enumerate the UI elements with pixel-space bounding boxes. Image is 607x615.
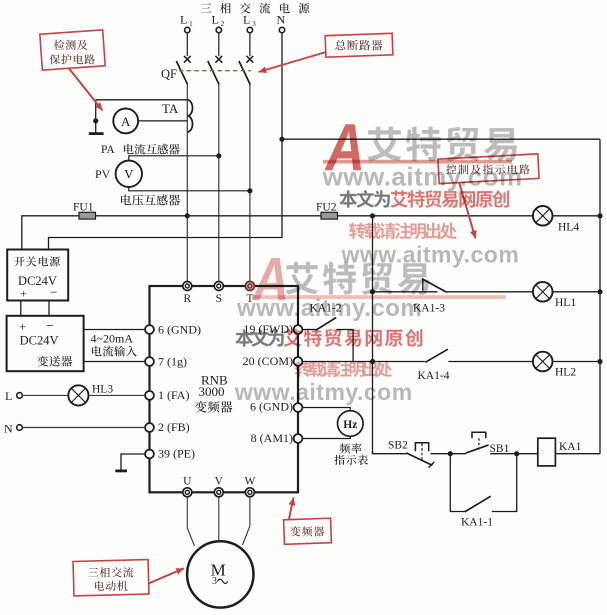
fuse FU1: [79, 212, 96, 219]
svg-text:KA1-4: KA1-4: [418, 370, 450, 382]
pin 7 1g: [145, 355, 187, 369]
breaker QF linkage (dashed): [179, 70, 251, 72]
breaker QF blade L1: [176, 61, 187, 85]
wire FU1 to FU2: [96, 215, 322, 217]
callout box 总断路器: [325, 33, 393, 57]
wire PA loop vertical: [95, 100, 97, 133]
junction dot PV-L2: [216, 153, 221, 158]
callout arrow to PA: [69, 69, 103, 111]
callout box 控制及指示电路: [438, 154, 539, 184]
label QF: [161, 67, 177, 81]
svg-text:2 (FB): 2 (FB): [158, 420, 190, 434]
terminal T: [245, 282, 254, 291]
watermark www lower: [236, 295, 422, 322]
junction dot HL1 rail: [597, 289, 602, 294]
label SB1: [490, 443, 510, 455]
svg-text:HL1: HL1: [555, 297, 576, 309]
voltmeter PV: [116, 161, 142, 187]
callout arrow to inverter: [289, 498, 296, 520]
svg-text:L: L: [5, 389, 12, 403]
breaker QF blade L3: [239, 61, 250, 85]
wire GND to Hz meter: [302, 408, 350, 412]
wire L3 to T terminal: [249, 84, 251, 282]
label KA1-4: [418, 370, 450, 382]
watermark www2 upper: [341, 242, 520, 268]
terminal W: [245, 488, 254, 497]
svg-text:V: V: [215, 476, 224, 488]
svg-text:3: 3: [252, 19, 256, 28]
svg-text:3: 3: [212, 576, 217, 587]
pin 6 GND left: [145, 323, 201, 337]
label PV: [95, 167, 111, 181]
label FU2: [316, 202, 337, 214]
wire PV to L2: [129, 156, 219, 161]
wire W to motor: [243, 497, 250, 545]
relay coil KA1: [538, 438, 556, 466]
wire HL4 to right rail: [553, 215, 601, 217]
svg-text:+: +: [19, 319, 26, 334]
junction dot PV-L3: [247, 188, 252, 193]
wire transmitter to pin7: [84, 361, 146, 363]
wire transmitter to pin6: [84, 329, 146, 331]
junction dot COM row at dropper: [370, 359, 375, 364]
svg-text:N: N: [4, 422, 13, 436]
pin 1 FA: [145, 388, 189, 402]
breaker QF contact cross L3: [247, 56, 254, 63]
svg-text:www.aitmy.com: www.aitmy.com: [322, 162, 523, 192]
wire HL1 row left: [373, 291, 438, 293]
svg-text:www.aitmy.com: www.aitmy.com: [234, 379, 413, 405]
svg-text:PV: PV: [95, 167, 111, 181]
ammeter PA: [113, 109, 138, 134]
motor M 3~: [187, 541, 253, 607]
terminal R: [183, 282, 192, 291]
svg-text:V: V: [124, 167, 134, 182]
wire dropper from FU line: [372, 216, 374, 454]
wire V to motor: [218, 497, 220, 541]
wire L2 drop to breaker: [218, 33, 220, 57]
breaker QF contact cross L2: [215, 56, 222, 63]
label HL3: [92, 384, 113, 396]
wire supply to transmitter +: [20, 301, 22, 316]
wire AM1 to Hz meter: [302, 436, 350, 439]
svg-text:39 (PE): 39 (PE): [158, 447, 195, 461]
wire top rail from N: [282, 138, 600, 140]
wire SB2 to SB1: [431, 453, 467, 455]
svg-text:PA: PA: [101, 144, 115, 156]
wire KA1-2 to corner: [336, 330, 353, 362]
watermark 转载请注明出处 lower: [295, 361, 392, 377]
wire FWD to contact: [302, 329, 315, 331]
label three-phase AC source 三相交流电源: [201, 3, 310, 14]
svg-text:L: L: [212, 13, 219, 27]
svg-text:7 (1g): 7 (1g): [158, 355, 187, 369]
svg-text:HL2: HL2: [555, 367, 576, 379]
terminal V: [214, 488, 223, 497]
label HL4: [558, 222, 579, 234]
junction dot HL2 rail: [597, 359, 602, 364]
watermark red underline upper: [323, 160, 512, 164]
watermark red underline lower: [252, 295, 506, 299]
svg-text:KA1: KA1: [559, 441, 582, 453]
lamp HL2: [533, 352, 553, 372]
wire PA to TA bottom: [113, 120, 187, 122]
svg-text:3000: 3000: [199, 384, 225, 399]
watermark www upper: [322, 162, 523, 192]
node N lower: [4, 422, 22, 436]
label SB2: [388, 440, 408, 452]
pin 39 PE: [145, 447, 195, 461]
svg-text:W: W: [244, 476, 255, 488]
watermark 艾特贸易 lower: [286, 262, 430, 295]
wire coil to rail: [555, 453, 600, 455]
junction dot KA1-1 branch right: [514, 451, 519, 456]
wire HL3 to pin1: [89, 394, 146, 396]
inverter RNB3000 box: [150, 286, 299, 492]
svg-text:TA: TA: [162, 101, 179, 116]
wire PV to L3: [129, 187, 250, 191]
svg-text:HL3: HL3: [92, 384, 113, 396]
current transformer TA coil: [187, 100, 192, 132]
watermark www2 lower: [234, 379, 413, 405]
watermark A logo upper: [324, 111, 365, 185]
watermark 转载请注明出处 upper: [349, 223, 457, 240]
label 4~20mA 电流输入: [91, 332, 137, 357]
svg-text:DC24V: DC24V: [20, 334, 59, 348]
label KA1-2: [310, 302, 342, 314]
label KA1-1: [461, 517, 493, 529]
label KA1: [559, 441, 582, 453]
svg-text:R: R: [183, 293, 191, 305]
callout box 检测及保护电路: [40, 30, 105, 70]
svg-text:−: −: [50, 285, 57, 300]
watermark 艾特贸易 upper: [367, 127, 517, 162]
svg-text:A: A: [121, 114, 131, 129]
wire N down and left to switching supply: [49, 33, 283, 250]
svg-text:N: N: [277, 13, 286, 27]
svg-text:4~20mA: 4~20mA: [91, 332, 134, 346]
junction dot HL4 rail: [597, 213, 602, 218]
lamp HL3: [68, 385, 88, 405]
node N (neutral input terminal): [277, 13, 286, 33]
lamp HL1: [533, 282, 553, 302]
wire right rail: [599, 139, 601, 454]
wire pin39 to ground: [121, 454, 145, 471]
fuse FU2: [321, 212, 338, 219]
contact KA1-2 (NO): [316, 318, 337, 331]
junction dot dropper HL1 row: [370, 289, 375, 294]
junction dot FU line at dropper: [370, 213, 375, 218]
label 电压互感器: [121, 194, 180, 205]
callout arrow control: [459, 182, 477, 239]
svg-text:S: S: [216, 293, 222, 305]
svg-text:20 (COM): 20 (COM): [243, 354, 293, 368]
pushbutton SB2 (NC): [406, 443, 434, 468]
label HL1: [555, 297, 576, 309]
node L: [5, 389, 22, 403]
svg-text:FU2: FU2: [316, 202, 337, 214]
wire TA top to PA branch: [96, 99, 188, 101]
terminal S: [214, 282, 223, 291]
pushbutton SB1 (NO): [466, 432, 489, 453]
node L2 (phase input terminal): [212, 13, 225, 33]
svg-text:Hz: Hz: [343, 419, 357, 431]
wire L2 to S terminal: [218, 84, 220, 282]
svg-text:L: L: [180, 13, 187, 27]
svg-text:QF: QF: [161, 67, 177, 81]
terminal U: [183, 488, 192, 497]
wire KA1-1 bypass loop: [450, 454, 516, 512]
svg-text:2: 2: [221, 19, 225, 28]
svg-text:SB2: SB2: [388, 440, 408, 452]
label HL2: [555, 367, 576, 379]
wire FU2 to HL4: [338, 215, 534, 217]
pin 2 FB: [145, 420, 190, 434]
svg-text:www.aitmy.com: www.aitmy.com: [236, 295, 422, 322]
svg-text:8 (AM1): 8 (AM1): [251, 431, 293, 445]
frequency meter Hz: [338, 411, 364, 437]
pin 6 GND right: [250, 400, 302, 414]
label FU1: [73, 202, 94, 214]
wire KA1-3 to HL1: [447, 291, 533, 293]
pin 8 AM1: [251, 431, 303, 445]
svg-text:1 (FA): 1 (FA): [158, 388, 189, 402]
label TA: [162, 101, 179, 116]
svg-text:−: −: [46, 319, 54, 334]
wire U to motor: [187, 497, 194, 546]
breaker QF contact cross L1: [184, 56, 191, 63]
svg-text:L: L: [243, 13, 250, 27]
svg-text:6 (GND): 6 (GND): [158, 323, 201, 337]
watermark 本文为艾特贸易网原创 lower: [235, 329, 422, 347]
transmitter box DC24V 变送器: [7, 316, 84, 371]
contact KA1-4 (NO): [425, 349, 448, 362]
svg-text:+: +: [20, 287, 27, 301]
callout box 三相交流电动机: [73, 560, 149, 596]
svg-text:HL4: HL4: [558, 222, 579, 234]
svg-text:1: 1: [189, 19, 193, 28]
wire HL2 to rail: [553, 361, 601, 363]
contact KA1-1 (NO): [465, 496, 491, 512]
junction dot top rail at N: [279, 137, 284, 142]
svg-text:SB1: SB1: [490, 443, 510, 455]
wire N to pin2: [22, 427, 145, 429]
watermark 本文为艾特贸易网原创 upper: [339, 190, 509, 208]
ground stub at PA: [89, 132, 104, 135]
label KA1-3: [413, 303, 445, 315]
node L1 (phase input terminal): [180, 13, 193, 33]
label PA 电流互感器: [101, 144, 180, 156]
wire L3 drop to breaker: [249, 33, 251, 57]
wire KA1-4 to HL2: [448, 361, 533, 363]
junction dot FU line on L1: [185, 213, 190, 218]
ground PE: [115, 469, 127, 472]
wire FU line left segment to switching supply: [22, 216, 79, 250]
contact KA1-3 (NO): [422, 278, 447, 292]
svg-text:U: U: [183, 476, 192, 488]
wire SB1 to coil: [490, 453, 538, 455]
wire HL1 to rail: [553, 291, 601, 293]
svg-text:KA1-1: KA1-1: [461, 517, 493, 529]
node L3 (phase input terminal): [243, 13, 256, 33]
wire L to HL3: [22, 394, 68, 396]
watermark A logo lower: [251, 246, 289, 314]
switching power supply box 开关电源 DC24V: [7, 250, 68, 301]
callout arrow to motor: [149, 568, 185, 583]
pin 19 FWD: [243, 322, 302, 336]
callout box 变频器: [284, 518, 332, 544]
lamp HL4: [533, 206, 553, 226]
wire L1 drop to breaker: [186, 33, 188, 57]
pin 20 COM: [243, 354, 303, 368]
wire dropper corner to SB2: [373, 451, 407, 454]
label RNB 3000 变频器: [195, 373, 232, 413]
callout arrow to QF: [259, 52, 327, 73]
wire supply to transmitter -: [48, 301, 50, 316]
wire COM row: [302, 361, 425, 363]
breaker QF blade L2: [208, 61, 219, 85]
junction dot KA1-1 branch left: [448, 451, 453, 456]
wire L1 to R terminal: [186, 84, 188, 282]
svg-text:FU1: FU1: [73, 202, 94, 214]
label 频率指示表: [340, 443, 362, 453]
junction dot PA branch: [93, 118, 98, 123]
